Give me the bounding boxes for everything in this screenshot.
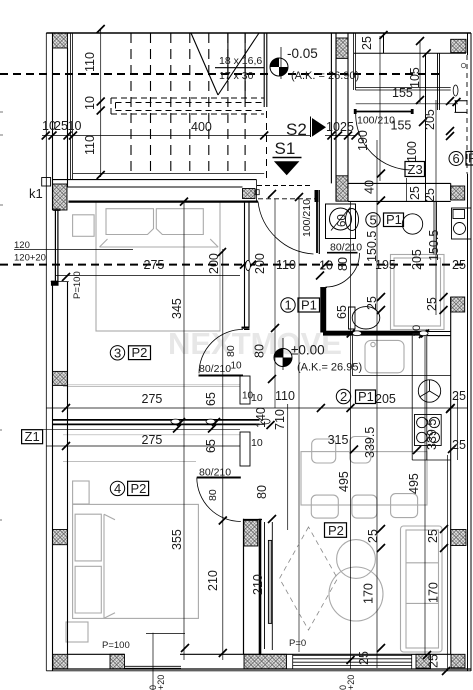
kitchen sink unit top: [365, 340, 404, 372]
ottoman circles: [337, 540, 376, 579]
hall top door arc + leaf: [316, 201, 318, 254]
svg-text:25: 25: [340, 120, 354, 134]
svg-text:210: 210: [251, 574, 265, 595]
svg-text:65: 65: [335, 305, 349, 319]
svg-text:17 x 30: 17 x 30: [219, 70, 254, 82]
svg-text:315: 315: [328, 433, 349, 447]
furniture layer: [63, 202, 444, 652]
svg-text:200: 200: [253, 253, 267, 274]
left wall faces: [52, 33, 54, 671]
wall stub right of door + cap: [315, 190, 319, 202]
svg-text:3: 3: [114, 345, 121, 360]
svg-text:80/210: 80/210: [199, 363, 231, 375]
column S1 right wall: [331, 33, 348, 201]
texts: rotated dims: [72, 36, 441, 690]
svg-text:210: 210: [206, 570, 220, 591]
stair void dashed rect: [111, 98, 264, 114]
bed room3: [96, 202, 220, 331]
svg-text:P=0: P=0: [289, 638, 306, 649]
svg-text:105: 105: [408, 67, 422, 88]
svg-text:339.5: 339.5: [425, 419, 439, 450]
bottom dim row: [340, 648, 360, 650]
bathroom door arc: [326, 253, 360, 287]
stairwell right wall: [264, 33, 267, 107]
watermark: [168, 326, 342, 361]
bathroom top wall band: [348, 183, 451, 201]
door labels: [102, 115, 395, 652]
svg-text:P2: P2: [131, 481, 147, 496]
svg-text:120+20: 120+20: [14, 253, 46, 264]
stairs: [111, 33, 264, 174]
bottom wall: [68, 653, 451, 655]
svg-text:100/210: 100/210: [357, 115, 395, 127]
svg-text:80/210: 80/210: [330, 242, 362, 254]
svg-text:25: 25: [366, 529, 380, 543]
door arcs: [197, 109, 414, 522]
svg-text:80/210: 80/210: [199, 467, 231, 479]
svg-text:110: 110: [276, 258, 296, 272]
svg-text:205: 205: [375, 392, 396, 406]
bathroom bottom wall: [323, 331, 427, 336]
svg-text:170: 170: [362, 583, 376, 604]
dining table: [301, 452, 427, 505]
room labels: [14, 151, 473, 538]
svg-text:Z3: Z3: [408, 162, 423, 177]
svg-text:25: 25: [408, 186, 422, 200]
vertical extension/dim lines: [184, 100, 458, 669]
nightstand room3 left: [73, 215, 95, 237]
svg-text:25: 25: [426, 529, 440, 543]
interior wall rooms3/4: [53, 420, 260, 425]
svg-text:P1: P1: [301, 298, 317, 313]
bathroom extras: [346, 36, 437, 255]
room3 door leaf+stub: [199, 375, 244, 377]
svg-text:P1: P1: [386, 212, 402, 227]
svg-text:25: 25: [452, 438, 466, 452]
sofa right: [401, 526, 443, 652]
chairs bottom row: [311, 495, 338, 518]
room4 door leaf: [197, 477, 241, 479]
svg-text:10: 10: [231, 361, 243, 372]
svg-text:275: 275: [142, 433, 163, 447]
svg-text:25: 25: [452, 389, 466, 403]
svg-text:80: 80: [225, 345, 237, 357]
svg-text:345: 345: [170, 298, 184, 319]
section dashed line top: [0, 73, 270, 75]
svg-text:190: 190: [356, 130, 370, 151]
bathroom left wall: [320, 288, 326, 333]
dashed X living room: [280, 527, 338, 630]
svg-text:80: 80: [253, 344, 267, 358]
wardrobe strips room3/room4: [63, 385, 240, 387]
svg-text:495: 495: [407, 473, 421, 494]
lobby door leaf: [356, 111, 412, 113]
shower/tub bathroom: [391, 255, 445, 330]
washer: [452, 208, 472, 239]
bed room4: [73, 504, 199, 618]
svg-text:10: 10: [411, 325, 423, 337]
svg-text:60: 60: [337, 214, 349, 227]
svg-text:150.5: 150.5: [427, 230, 441, 261]
svg-text:6: 6: [453, 151, 460, 166]
row y=429/446 left: [22, 430, 240, 446]
svg-text:40: 40: [363, 180, 377, 194]
wall above hall (lobby bottom wall): [53, 180, 257, 187]
svg-text:25: 25: [423, 188, 437, 202]
svg-text:710: 710: [273, 409, 287, 430]
chairs top row: [312, 439, 336, 463]
svg-text:100/210: 100/210: [301, 199, 313, 237]
room4 door arc: [197, 478, 241, 522]
lobby interior lines: [356, 88, 451, 91]
texts: dims horizontal: [42, 55, 466, 452]
svg-text:+20: +20: [346, 675, 356, 690]
svg-text:400: 400: [191, 120, 212, 134]
top row y=135: [42, 135, 356, 137]
level marker 1: [270, 46, 359, 82]
svg-text:65: 65: [204, 439, 218, 453]
svg-text:205: 205: [423, 109, 437, 130]
svg-text:205: 205: [410, 249, 424, 270]
svg-text:10: 10: [326, 120, 340, 134]
svg-text:150.5: 150.5: [365, 231, 379, 262]
door header dashed: [257, 186, 315, 199]
svg-text:25: 25: [357, 651, 371, 665]
svg-text:65: 65: [204, 392, 218, 406]
svg-text:(A.K. = 26.90): (A.K. = 26.90): [291, 70, 359, 82]
svg-text:10: 10: [251, 392, 263, 404]
zero ovals: [171, 85, 458, 424]
svg-text:P: P: [468, 151, 473, 166]
svg-text:275: 275: [142, 392, 163, 406]
S markers: [273, 118, 327, 175]
svg-text:18 x 16,6: 18 x 16,6: [219, 55, 262, 67]
k1 window glass: [55, 210, 58, 282]
stove: [415, 415, 442, 446]
svg-text:1: 1: [285, 298, 292, 313]
svg-text:k1: k1: [29, 186, 43, 201]
left edge fragments: [0, 112, 3, 520]
svg-text:10: 10: [319, 259, 333, 273]
svg-text:±0.00: ±0.00: [291, 343, 325, 358]
svg-text:Z1: Z1: [25, 429, 40, 444]
svg-text:170: 170: [427, 582, 441, 603]
svg-text:-0.05: -0.05: [287, 46, 318, 61]
top wall: [46, 32, 471, 34]
row y=275.5: [56, 275, 240, 277]
svg-text:25: 25: [54, 119, 68, 133]
svg-text:+20: +20: [156, 675, 166, 690]
svg-text:110: 110: [83, 135, 97, 155]
svg-text:25: 25: [427, 654, 441, 668]
svg-text:2: 2: [340, 389, 347, 404]
living room left wall lower: [243, 519, 245, 655]
svg-text:10: 10: [83, 96, 97, 110]
washbasin circle: [402, 214, 422, 234]
svg-text:80: 80: [336, 257, 350, 271]
svg-text:25: 25: [360, 36, 374, 50]
roller dashed: [466, 55, 468, 174]
svg-text:495: 495: [337, 471, 351, 492]
svg-text:5: 5: [370, 212, 377, 227]
svg-text:S1: S1: [275, 139, 296, 158]
row y=404.7 full: [46, 407, 468, 409]
svg-text:25: 25: [452, 258, 466, 272]
left wall inner double (stair zone): [71, 33, 73, 180]
svg-text:200: 200: [207, 253, 221, 274]
kitchen boxes on hall wall: [240, 376, 250, 404]
svg-text:P=100: P=100: [72, 271, 83, 299]
svg-text:4: 4: [114, 481, 121, 496]
svg-text:P=100: P=100: [102, 640, 130, 651]
hall left wall: [245, 202, 250, 327]
svg-text:110: 110: [83, 52, 97, 72]
svg-text:80: 80: [255, 485, 269, 499]
nightstands room4: [73, 481, 90, 504]
toilet: [349, 307, 380, 329]
svg-text:110: 110: [275, 389, 295, 403]
right wall faces: [468, 33, 472, 671]
svg-text:10: 10: [251, 437, 263, 449]
svg-text:339.5: 339.5: [363, 427, 377, 458]
svg-text:10: 10: [68, 119, 82, 133]
svg-text:25: 25: [425, 297, 439, 311]
svg-text:(A.K.= 26.95): (A.K.= 26.95): [297, 362, 362, 374]
kitchen counters: [352, 336, 450, 460]
svg-text:355: 355: [170, 529, 184, 550]
level marker 2: [274, 338, 362, 374]
svg-text:P2: P2: [328, 523, 344, 538]
svg-text:P1: P1: [358, 389, 374, 404]
svg-text:80: 80: [207, 489, 219, 501]
shaft 60: [326, 204, 356, 239]
svg-text:100: 100: [405, 141, 419, 162]
svg-text:140: 140: [254, 407, 268, 428]
round sink w Y: [418, 380, 440, 402]
k1 box: [42, 178, 51, 187]
stairs 400 dim verticals: [100, 28, 102, 177]
svg-text:275: 275: [144, 258, 165, 272]
room3 bottom door arc: [199, 329, 243, 373]
svg-text:S2: S2: [286, 120, 307, 139]
svg-text:25: 25: [365, 296, 379, 310]
main dashed line middle: [0, 264, 466, 266]
bottom window glazing: [293, 656, 412, 666]
svg-text:P2: P2: [132, 345, 148, 360]
